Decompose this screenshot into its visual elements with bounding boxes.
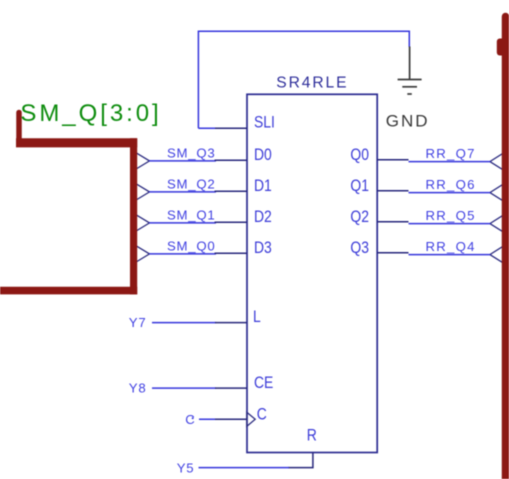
svg-text:RR_Q4: RR_Q4: [426, 239, 476, 254]
wire net SM_Q3: [149, 160, 216, 162]
wire net Y8: [152, 387, 216, 389]
svg-text:R: R: [307, 426, 317, 445]
svg-text:CE: CE: [254, 374, 273, 393]
svg-text:SM_Q[3:0]: SM_Q[3:0]: [20, 100, 161, 127]
pin Q2 stub: [377, 221, 408, 223]
pin Q3 stub: [377, 252, 408, 254]
wire net SM_Q2: [149, 191, 216, 193]
bus tap wedge SM_Q1: [136, 215, 149, 231]
ground symbol: [398, 47, 422, 95]
wire net Y7: [152, 322, 216, 324]
svg-text:D2: D2: [254, 208, 272, 227]
wire net SM_Q0: [149, 253, 216, 255]
svg-text:Q2: Q2: [350, 208, 369, 227]
svg-text:SM_Q3: SM_Q3: [167, 145, 215, 160]
pin C clock wedge: [247, 412, 255, 426]
svg-text:C: C: [257, 405, 267, 424]
svg-text:RR_Q6: RR_Q6: [426, 177, 476, 192]
svg-text:SM_Q1: SM_Q1: [167, 207, 215, 222]
bus tap wedge SM_Q2: [136, 184, 149, 200]
bus SM_Q[3:0] top horizontal segment: [16, 138, 137, 147]
svg-text:D1: D1: [254, 177, 272, 196]
svg-text:L: L: [253, 308, 261, 327]
svg-text:C: C: [185, 412, 195, 427]
wire net RR_Q5: [409, 223, 491, 225]
pin D0 stub: [215, 159, 248, 161]
bus tap wedge SM_Q0: [136, 246, 149, 262]
pin C stub: [215, 418, 247, 420]
pin Q1 stub: [377, 190, 408, 192]
pin SLI stub: [215, 127, 247, 129]
wire top loop (SLI to GND): [198, 31, 409, 128]
svg-text:Q1: Q1: [350, 177, 369, 196]
svg-text:SM_Q0: SM_Q0: [167, 238, 215, 253]
bus tap wedge RR_Q4: [490, 247, 503, 263]
pin R stub vertical: [288, 453, 313, 468]
wire net RR_Q7: [409, 161, 491, 163]
wire net Y5: [199, 467, 290, 469]
svg-text:Q3: Q3: [350, 239, 369, 258]
svg-text:SM_Q2: SM_Q2: [167, 176, 215, 191]
wire net RR_Q6: [409, 192, 491, 194]
bus RR junction tab: [497, 39, 507, 56]
net label C dot: [192, 417, 194, 419]
svg-text:RR_Q7: RR_Q7: [426, 146, 476, 161]
svg-text:GND: GND: [386, 111, 430, 130]
pin D2 stub: [215, 221, 248, 223]
bus SM_Q[3:0] top stub: [16, 113, 22, 144]
svg-text:RR_Q5: RR_Q5: [426, 208, 476, 223]
bus tap wedge RR_Q6: [490, 185, 503, 201]
bus tap wedge RR_Q7: [490, 154, 503, 170]
svg-text:Y7: Y7: [129, 315, 147, 330]
wire SLI net segment: [198, 127, 218, 129]
bus SM_Q[3:0] bottom horizontal segment: [0, 287, 137, 295]
svg-text:Y8: Y8: [129, 381, 147, 396]
pin CE stub: [215, 387, 247, 389]
svg-text:SR4RLE: SR4RLE: [276, 75, 348, 92]
svg-text:Y5: Y5: [177, 460, 195, 475]
wire net RR_Q4: [409, 254, 491, 256]
svg-text:Q0: Q0: [350, 146, 369, 165]
pin L stub: [215, 322, 247, 324]
pin D3 stub: [215, 252, 248, 254]
svg-text:D3: D3: [254, 239, 272, 258]
pin D1 stub: [215, 190, 248, 192]
bus SM_Q[3:0] vertical segment: [130, 138, 137, 294]
bus tap wedge SM_Q3: [136, 153, 149, 169]
pin Q0 stub: [377, 159, 408, 161]
bus RR (right edge) vertical: [502, 17, 509, 479]
component U1 SR4RLE body: [247, 94, 377, 452]
svg-text:SLI: SLI: [254, 113, 275, 132]
wire net SM_Q1: [149, 222, 216, 224]
wire net C: [199, 418, 218, 420]
bus tap wedge RR_Q5: [490, 216, 503, 232]
svg-text:D0: D0: [254, 146, 272, 165]
